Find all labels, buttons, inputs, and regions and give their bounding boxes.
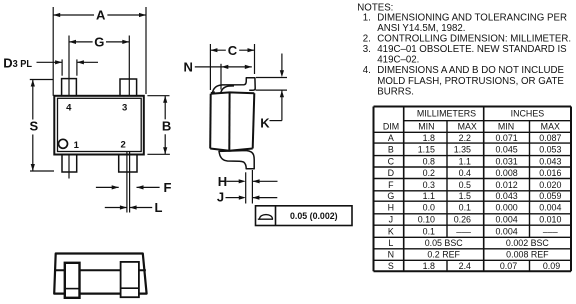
svg-text:F: F — [388, 180, 394, 190]
svg-text:3 PL: 3 PL — [13, 59, 33, 70]
svg-text:1: 1 — [74, 140, 80, 151]
svg-text:0.07: 0.07 — [500, 261, 517, 271]
svg-text:0.004: 0.004 — [495, 215, 517, 225]
svg-text:0.05 BSC: 0.05 BSC — [425, 238, 464, 248]
svg-text:K: K — [260, 115, 270, 130]
svg-text:0.053: 0.053 — [539, 144, 561, 154]
svg-text:H: H — [218, 174, 227, 189]
svg-text:H: H — [388, 203, 394, 213]
svg-text:N: N — [184, 60, 193, 75]
svg-text:1.1: 1.1 — [423, 191, 435, 201]
svg-text:MAX: MAX — [541, 122, 560, 132]
svg-text:3.: 3. — [363, 44, 371, 55]
svg-text:0.012: 0.012 — [495, 180, 517, 190]
svg-text:1.: 1. — [363, 13, 371, 24]
svg-text:0.26: 0.26 — [454, 215, 471, 225]
svg-text:S: S — [29, 119, 38, 134]
svg-text:L: L — [388, 238, 393, 248]
svg-text:MIN: MIN — [498, 122, 514, 132]
svg-text:G: G — [387, 191, 394, 201]
svg-text:A: A — [388, 133, 394, 143]
svg-text:DIMENSIONING AND TOLERANCING P: DIMENSIONING AND TOLERANCING PER — [377, 13, 567, 24]
svg-text:B: B — [162, 119, 171, 134]
svg-text:0.004: 0.004 — [539, 203, 561, 213]
svg-text:1.8: 1.8 — [423, 261, 435, 271]
svg-text:N: N — [388, 250, 394, 260]
svg-text:0.010: 0.010 — [539, 215, 561, 225]
svg-text:D: D — [388, 168, 394, 178]
svg-text:C: C — [228, 43, 238, 58]
svg-text:4.: 4. — [363, 65, 371, 76]
svg-text:1.5: 1.5 — [459, 191, 471, 201]
svg-text:419C–02.: 419C–02. — [377, 55, 419, 66]
svg-text:0.020: 0.020 — [539, 180, 561, 190]
svg-text:A: A — [96, 8, 106, 23]
svg-text:419C–01 OBSOLETE. NEW STANDARD: 419C–01 OBSOLETE. NEW STANDARD IS — [377, 44, 567, 55]
svg-text:L: L — [155, 200, 163, 215]
svg-text:0.043: 0.043 — [539, 156, 561, 166]
svg-text:0.0: 0.0 — [423, 203, 435, 213]
svg-text:0.09: 0.09 — [543, 261, 560, 271]
svg-text:1.15: 1.15 — [418, 144, 435, 154]
svg-text:J: J — [389, 215, 393, 225]
svg-text:0.004: 0.004 — [495, 226, 517, 236]
svg-text:2.4: 2.4 — [459, 261, 471, 271]
svg-text:0.002 BSC: 0.002 BSC — [506, 238, 550, 248]
svg-text:MILLIMETERS: MILLIMETERS — [417, 109, 476, 119]
svg-text:DIM: DIM — [383, 121, 399, 131]
svg-text:S: S — [388, 261, 394, 271]
svg-text:K: K — [388, 226, 394, 236]
svg-text:4: 4 — [66, 103, 72, 114]
svg-text:2.2: 2.2 — [459, 133, 471, 143]
svg-text:ANSI Y14.5M, 1982.: ANSI Y14.5M, 1982. — [377, 23, 465, 34]
svg-text:0.3: 0.3 — [423, 180, 435, 190]
svg-text:0.000: 0.000 — [495, 203, 517, 213]
svg-text:BURRS.: BURRS. — [377, 86, 414, 97]
svg-text:0.045: 0.045 — [495, 144, 517, 154]
svg-text:0.016: 0.016 — [539, 168, 561, 178]
svg-text:0.059: 0.059 — [539, 191, 561, 201]
svg-text:3: 3 — [122, 103, 127, 114]
svg-text:–––: ––– — [543, 226, 558, 236]
svg-text:1.35: 1.35 — [454, 144, 471, 154]
svg-text:B: B — [388, 144, 394, 154]
svg-text:0.05 (0.002): 0.05 (0.002) — [290, 211, 338, 221]
svg-text:0.4: 0.4 — [459, 168, 471, 178]
svg-text:D: D — [3, 55, 12, 70]
svg-text:0.087: 0.087 — [539, 133, 561, 143]
svg-text:J: J — [217, 189, 224, 204]
svg-text:0.008: 0.008 — [495, 168, 517, 178]
svg-text:–––: ––– — [456, 226, 471, 236]
svg-text:0.031: 0.031 — [495, 156, 517, 166]
svg-text:MAX: MAX — [458, 122, 477, 132]
svg-text:0.071: 0.071 — [495, 133, 517, 143]
svg-text:0.1: 0.1 — [459, 203, 471, 213]
svg-text:0.10: 0.10 — [418, 215, 435, 225]
svg-text:1.8: 1.8 — [423, 133, 435, 143]
svg-text:F: F — [164, 180, 172, 195]
svg-text:C: C — [388, 156, 395, 166]
svg-text:0.043: 0.043 — [495, 191, 517, 201]
svg-text:CONTROLLING DIMENSION: MILLIME: CONTROLLING DIMENSION: MILLIMETER. — [377, 34, 571, 45]
svg-text:0.2 REF: 0.2 REF — [427, 250, 460, 260]
svg-text:2: 2 — [121, 139, 126, 150]
svg-text:MIN: MIN — [418, 122, 434, 132]
svg-text:0.008 REF: 0.008 REF — [506, 250, 549, 260]
svg-text:G: G — [94, 35, 104, 50]
svg-text:0.8: 0.8 — [423, 156, 435, 166]
svg-text:0.2: 0.2 — [423, 168, 435, 178]
svg-text:1.1: 1.1 — [459, 156, 471, 166]
svg-text:INCHES: INCHES — [511, 109, 545, 119]
svg-text:DIMENSIONS A AND B DO NOT INCL: DIMENSIONS A AND B DO NOT INCLUDE — [377, 65, 564, 76]
svg-text:MOLD FLASH, PROTRUSIONS, OR GA: MOLD FLASH, PROTRUSIONS, OR GATE — [377, 76, 564, 87]
svg-text:0.1: 0.1 — [423, 226, 435, 236]
svg-text:2.: 2. — [363, 34, 371, 45]
svg-text:0.5: 0.5 — [459, 180, 471, 190]
